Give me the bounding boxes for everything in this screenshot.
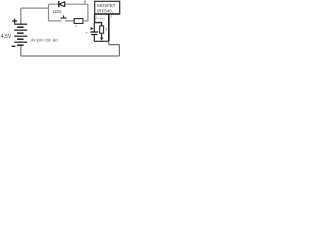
wire LED branch left	[49, 3, 59, 5]
svg-text:MOSFET: MOSFET	[97, 3, 116, 8]
label right of R2	[106, 28, 107, 31]
svg-text:3: 3	[110, 15, 112, 19]
svg-text:1: 1	[96, 15, 98, 19]
label under R1	[75, 25, 77, 27]
pushbutton S1	[61, 15, 67, 18]
svg-text:4,5V: 4,5V	[1, 34, 12, 40]
MOSFET U1 box	[95, 1, 120, 14]
wire jog to bottom rail	[109, 41, 120, 44]
resistor R1 horizontal	[74, 19, 83, 24]
wire junction vertical node A	[48, 4, 50, 21]
wire LED branch right	[65, 4, 88, 21]
annotation arrow down at R2 lead	[100, 38, 103, 41]
pin label row	[95, 17, 105, 19]
wire bottom rail	[21, 45, 120, 56]
wire gate pin of U1	[95, 14, 102, 26]
wire drain pin of U1	[108, 14, 110, 41]
svg-text:2: 2	[101, 15, 103, 19]
annotation arrow right at cap lead	[91, 27, 94, 30]
resistor R2 vertical	[100, 26, 104, 33]
faint mark left of cap	[86, 32, 88, 34]
LED D1	[59, 1, 65, 7]
wire switch to resistor	[65, 20, 74, 22]
annotation arrow down at LED wire	[84, 0, 86, 3]
wire right side down	[118, 45, 120, 56]
wire battery top lead to junction	[21, 8, 49, 24]
capacitor C1	[90, 32, 98, 35]
battery B1 plates	[14, 24, 27, 45]
wire resistor to node B	[83, 20, 89, 22]
wire gate branch to switch	[49, 20, 62, 22]
svg-text:IRF540,: IRF540,	[97, 8, 113, 13]
wire junction rail	[94, 40, 109, 42]
battery plus sign	[12, 19, 17, 24]
svg-text:4x pin cúc áo: 4x pin cúc áo	[31, 37, 59, 42]
box bottom edge emphasis	[94, 13, 120, 15]
wire cap top lead	[93, 23, 95, 32]
svg-text:LED: LED	[53, 9, 63, 14]
battery minus sign	[12, 45, 16, 47]
wire cap bottom lead	[93, 35, 95, 42]
wire R2 bottom lead	[101, 33, 103, 38]
